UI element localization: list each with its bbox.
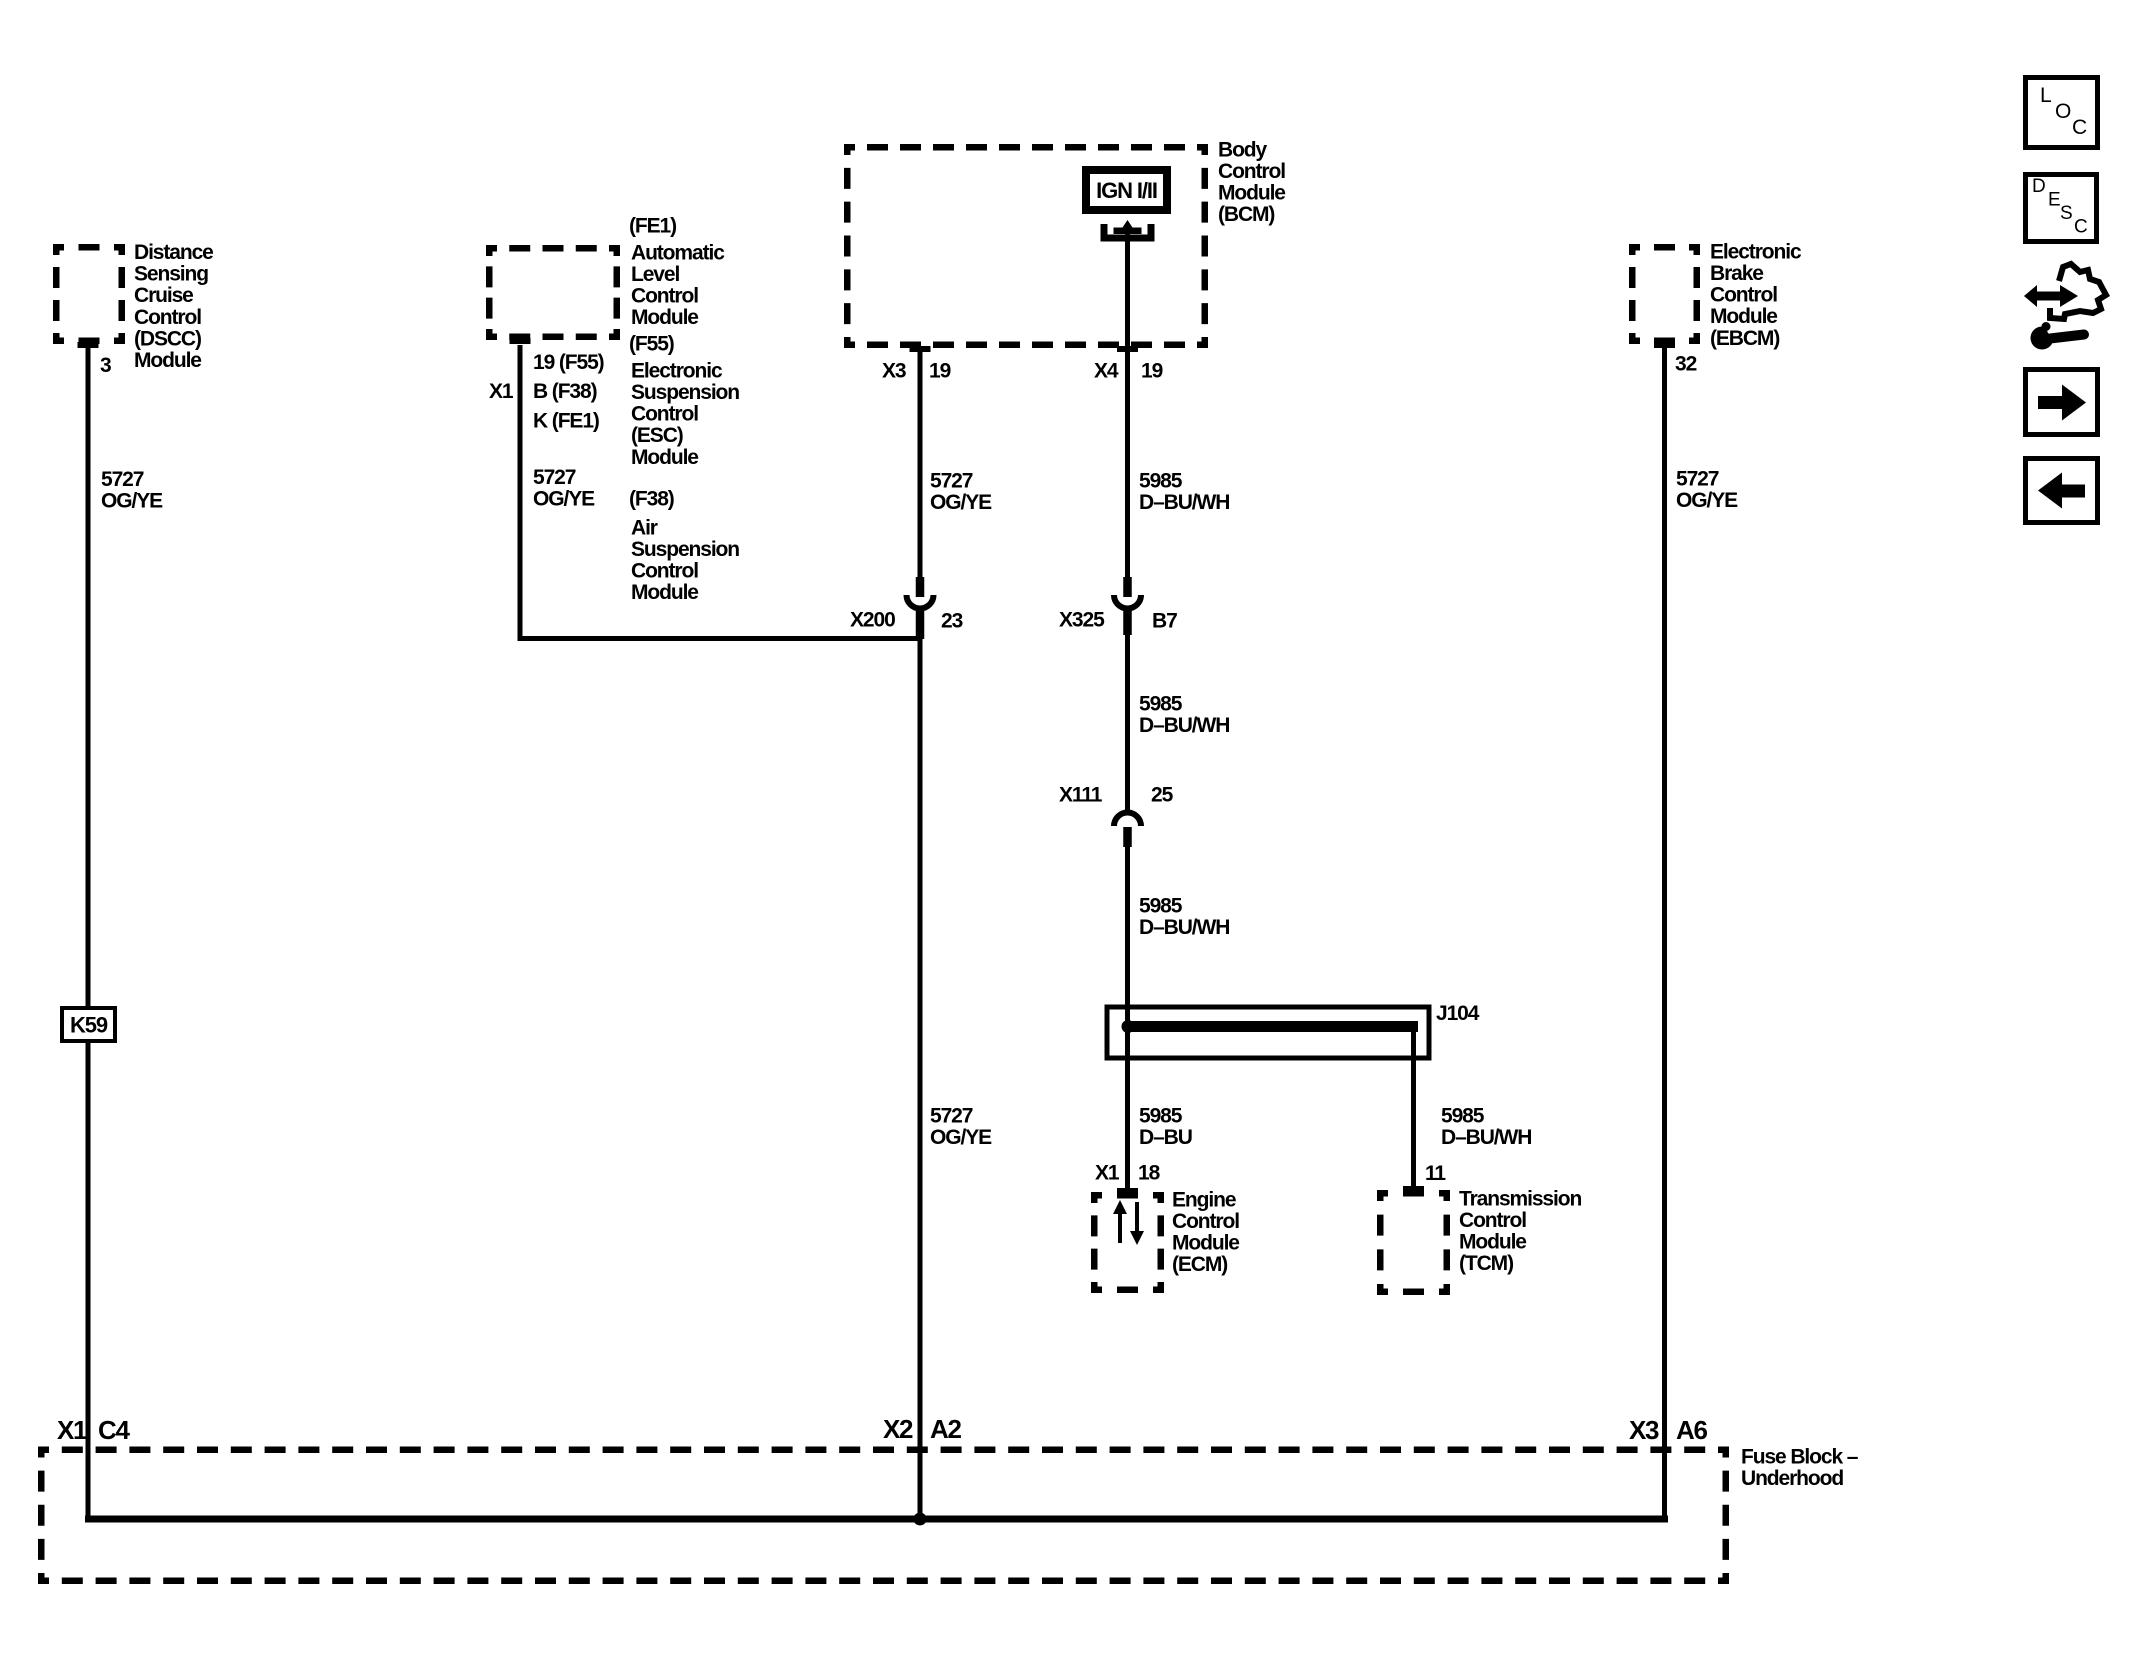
svg-text:19: 19: [1141, 360, 1163, 383]
page-back arrow: [2061, 485, 2085, 498]
page-forward arrow icon box: [2026, 370, 2098, 435]
IGN I/II box: [1082, 166, 1171, 214]
svg-text:C4: C4: [98, 1415, 130, 1445]
svg-text:X1: X1: [489, 380, 514, 403]
svg-text:Automatic: Automatic: [631, 241, 725, 264]
svg-text:Control: Control: [631, 403, 698, 426]
connector X200 cup: [907, 595, 934, 609]
wire BCM X3-19 down (5727 OG/YE): [918, 348, 923, 579]
svg-text:Engine: Engine: [1172, 1188, 1236, 1211]
ECM entry T-bar: [1117, 1188, 1138, 1194]
svg-text:OG/YE: OG/YE: [1676, 489, 1738, 512]
module TCM box (dashed): [1377, 1190, 1450, 1197]
svg-text:L: L: [2040, 84, 2052, 107]
svg-text:Control: Control: [631, 285, 698, 308]
ECM down arrow: [1135, 1202, 1139, 1233]
svg-text:K (FE1): K (FE1): [533, 410, 599, 433]
svg-text:X1: X1: [57, 1415, 87, 1445]
wire EBCM exit T-bar: [1654, 342, 1675, 348]
svg-text:Fuse Block –: Fuse Block –: [1741, 1445, 1859, 1468]
svg-text:D–BU/WH: D–BU/WH: [1139, 714, 1229, 737]
svg-text:OG/YE: OG/YE: [101, 490, 163, 513]
wire ALC exit T-bar: [510, 338, 531, 344]
relay K59 box: [62, 1008, 115, 1041]
svg-text:D: D: [2032, 176, 2046, 197]
wire K59 to fuse block: [86, 1043, 91, 1522]
wire DSCC to K59 (5727 OG/YE): [86, 347, 91, 1006]
svg-text:Electronic: Electronic: [1710, 240, 1802, 263]
svg-text:X1: X1: [1095, 1162, 1120, 1185]
svg-text:Control: Control: [1218, 160, 1285, 183]
svg-text:Control: Control: [1172, 1210, 1239, 1233]
svg-text:(EBCM): (EBCM): [1710, 327, 1779, 350]
DESC icon box: [2026, 175, 2097, 242]
svg-text:5727: 5727: [1676, 467, 1719, 490]
svg-text:Module: Module: [1172, 1232, 1239, 1255]
svg-text:Control: Control: [631, 560, 698, 583]
svg-text:Control: Control: [1459, 1209, 1526, 1232]
wire X325 to X111 (5985 D-BU/WH): [1125, 610, 1130, 814]
svg-text:Control: Control: [134, 306, 201, 329]
wire X111 to J104 (5985 D-BU/WH): [1125, 847, 1130, 1026]
svg-text:Body: Body: [1218, 138, 1268, 161]
wire J104 to ECM (5985 D-BU): [1125, 1032, 1130, 1190]
wrench-connector icon double arrow: [2024, 285, 2078, 307]
svg-text:(ESC): (ESC): [631, 424, 683, 447]
svg-text:D–BU/WH: D–BU/WH: [1441, 1126, 1531, 1149]
module DSCC box (dashed): [53, 244, 125, 251]
svg-text:B7: B7: [1152, 610, 1177, 633]
svg-text:A6: A6: [1676, 1415, 1707, 1445]
TCM entry T-bar: [1403, 1186, 1424, 1192]
svg-text:Module: Module: [631, 446, 698, 469]
wrench-connector icon wrench: [2031, 327, 2054, 350]
svg-text:(DSCC): (DSCC): [134, 327, 201, 350]
svg-text:Electronic: Electronic: [631, 359, 723, 382]
svg-text:Module: Module: [1218, 182, 1285, 205]
wire BCM X3 exit T-bar: [910, 346, 931, 352]
svg-text:Level: Level: [631, 263, 679, 286]
connector X325 pin: [1123, 577, 1132, 597]
wire J104 to TCM (5985 D-BU/WH): [1411, 1030, 1416, 1188]
svg-text:OG/YE: OG/YE: [533, 488, 595, 511]
junction dot at bus (X2-A2): [914, 1513, 927, 1526]
module ALC box (dashed): [486, 245, 620, 252]
module ECM box (dashed): [1091, 1192, 1164, 1199]
svg-text:X3: X3: [1629, 1415, 1659, 1445]
svg-text:X325: X325: [1059, 609, 1105, 632]
svg-text:X200: X200: [850, 609, 895, 632]
svg-text:O: O: [2055, 100, 2071, 123]
svg-text:C: C: [2074, 217, 2088, 238]
wire X200 to fuse block: [918, 610, 923, 1522]
svg-text:5985: 5985: [1139, 469, 1183, 492]
svg-text:(F55): (F55): [629, 333, 674, 356]
svg-text:5985: 5985: [1139, 1104, 1183, 1127]
svg-text:(TCM): (TCM): [1459, 1252, 1513, 1275]
svg-text:OG/YE: OG/YE: [930, 491, 992, 514]
fuse block box (dashed): [38, 1447, 1729, 1454]
module EBCM box (dashed): [1629, 244, 1700, 251]
connector X111 cup: [1114, 813, 1141, 827]
svg-text:23: 23: [941, 610, 963, 633]
connector X325 lower pin stub: [1123, 611, 1132, 635]
svg-text:Sensing: Sensing: [134, 263, 208, 286]
svg-text:Cruise: Cruise: [134, 284, 193, 307]
svg-text:IGN I/II: IGN I/II: [1096, 178, 1157, 203]
svg-text:25: 25: [1151, 784, 1174, 807]
svg-text:32: 32: [1675, 353, 1697, 376]
page-forward arrow: [2038, 396, 2062, 409]
svg-text:A2: A2: [930, 1414, 961, 1444]
wrench-connector icon housing outline: [2050, 264, 2106, 319]
connector X111 pin: [1123, 827, 1132, 847]
svg-text:X4: X4: [1094, 360, 1119, 383]
svg-text:5727: 5727: [930, 469, 973, 492]
J104 internal bus bar: [1126, 1021, 1418, 1032]
svg-text:Distance: Distance: [134, 241, 213, 264]
svg-text:Air: Air: [631, 516, 658, 539]
svg-text:5985: 5985: [1441, 1104, 1485, 1127]
BCM internal connection bracket: [1104, 224, 1151, 238]
svg-text:D–BU/WH: D–BU/WH: [1139, 916, 1229, 939]
wire BCM X4 exit T-bar: [1117, 346, 1138, 352]
svg-text:Module: Module: [1710, 305, 1777, 328]
fuse block bus wire: [85, 1516, 1668, 1523]
BCM bracket T-bar: [1114, 228, 1142, 235]
connector X325 cup: [1114, 595, 1141, 609]
svg-text:Underhood: Underhood: [1741, 1467, 1843, 1490]
svg-text:C: C: [2072, 116, 2087, 139]
wire EBCM to fuse block (5727 OG/YE): [1662, 346, 1667, 1522]
connector X200 pin: [916, 577, 925, 597]
svg-text:(FE1): (FE1): [629, 215, 676, 238]
svg-text:B (F38): B (F38): [533, 380, 597, 403]
ECM up arrow: [1118, 1212, 1122, 1243]
svg-text:Suspension: Suspension: [631, 381, 739, 404]
svg-text:18: 18: [1138, 1162, 1161, 1185]
LOC icon box: [2026, 78, 2098, 148]
svg-text:Transmission: Transmission: [1459, 1187, 1581, 1210]
svg-text:(BCM): (BCM): [1218, 203, 1274, 226]
svg-text:Suspension: Suspension: [631, 538, 739, 561]
svg-text:3: 3: [100, 354, 111, 377]
svg-text:J104: J104: [1436, 1002, 1480, 1025]
svg-text:D–BU: D–BU: [1139, 1126, 1192, 1149]
svg-text:D–BU/WH: D–BU/WH: [1139, 491, 1229, 514]
svg-text:(F38): (F38): [629, 487, 674, 510]
svg-text:5985: 5985: [1139, 692, 1183, 715]
svg-text:11: 11: [1425, 1162, 1446, 1185]
svg-text:X2: X2: [883, 1414, 913, 1444]
wire IGN to X325 (5985 D-BU/WH): [1125, 233, 1130, 579]
svg-text:Brake: Brake: [1710, 262, 1763, 285]
wire DSCC pin 3 exit T-bar: [78, 342, 99, 348]
wire ALC to X200 junction: [520, 345, 920, 639]
svg-text:OG/YE: OG/YE: [930, 1126, 992, 1149]
svg-text:E: E: [2048, 190, 2061, 211]
svg-text:S: S: [2060, 203, 2073, 224]
splice pack J104 box: [1107, 1007, 1429, 1058]
svg-text:Control: Control: [1710, 284, 1777, 307]
junction dot on J104 bar: [1122, 1020, 1135, 1033]
svg-text:X111: X111: [1059, 784, 1103, 807]
connector X200 lower pin stub: [916, 611, 925, 639]
svg-text:K59: K59: [70, 1013, 108, 1038]
svg-text:X3: X3: [882, 360, 906, 383]
svg-text:19 (F55): 19 (F55): [533, 351, 604, 374]
svg-text:Module: Module: [631, 581, 698, 604]
svg-text:5727: 5727: [101, 468, 144, 491]
svg-text:5727: 5727: [533, 466, 576, 489]
svg-text:(ECM): (ECM): [1172, 1253, 1227, 1276]
svg-text:19: 19: [929, 360, 951, 383]
svg-text:Module: Module: [134, 349, 201, 372]
svg-text:Module: Module: [631, 306, 698, 329]
module BCM box (dashed): [844, 144, 1208, 151]
svg-text:Module: Module: [1459, 1231, 1526, 1254]
page-back arrow icon box: [2026, 459, 2098, 523]
svg-text:5985: 5985: [1139, 894, 1183, 917]
svg-text:5727: 5727: [930, 1104, 973, 1127]
